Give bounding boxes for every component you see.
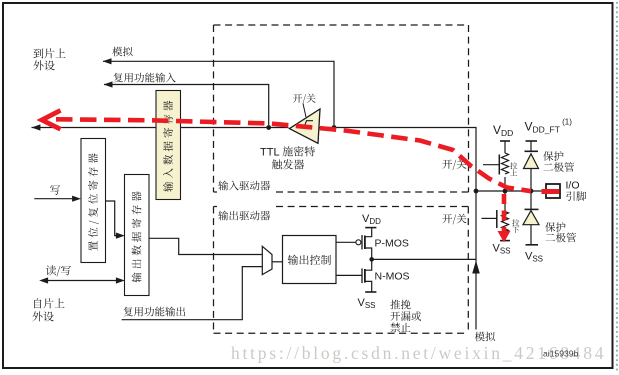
- resistor R2 pull-down with switch: [482, 191, 509, 240]
- svg-text:引脚: 引脚: [566, 189, 587, 204]
- power VDD (pmos source): [365, 227, 376, 229]
- wire: mos output to pin column: [372, 258, 476, 260]
- resistor R1 pull-up with switch: [483, 141, 509, 191]
- svg-text:VSS: VSS: [525, 251, 543, 264]
- wire: schmitt input to pin column: [319, 128, 476, 192]
- svg-text:VDD: VDD: [493, 123, 513, 138]
- node junction: protection diode column: [529, 189, 534, 194]
- svg-text:ai15939b: ai15939b: [543, 349, 579, 359]
- transistor Q2 N-MOS: [336, 259, 372, 291]
- svg-text:开/关: 开/关: [293, 90, 317, 105]
- schmitt trigger U1: [289, 109, 320, 143]
- ground VSS (diode): [526, 244, 539, 246]
- ground VSS (nmos source): [365, 291, 376, 293]
- register: input data register: [156, 91, 181, 200]
- wire: set/reset register to output data register: [106, 201, 118, 236]
- svg-text:触发器: 触发器: [272, 157, 305, 173]
- diode D1 protection (to VDD_FT): [530, 141, 532, 151]
- svg-text:写: 写: [50, 182, 61, 198]
- svg-text:模拟: 模拟: [475, 330, 496, 345]
- svg-text:输出驱动器: 输出驱动器: [218, 209, 271, 224]
- svg-text:外设: 外设: [32, 309, 54, 325]
- wire: schmitt output to input data register: [181, 127, 289, 129]
- svg-text:模拟: 模拟: [112, 45, 133, 60]
- svg-text:下: 下: [512, 224, 520, 235]
- svg-text:禁止: 禁止: [390, 321, 411, 336]
- svg-text:复用功能输出: 复用功能输出: [123, 305, 186, 320]
- ground VSS (pull-down): [500, 240, 510, 242]
- wire: main input line to peripherals: [32, 127, 157, 129]
- svg-text:置位/复位寄存器: 置位/复位寄存器: [86, 150, 101, 251]
- block: output control U2: [283, 236, 337, 284]
- red signal path (input with pull-down): [42, 110, 559, 231]
- node junction: alternate input taps main line: [266, 125, 271, 130]
- svg-text:输入驱动器: 输入驱动器: [218, 179, 271, 194]
- register: output data register: [125, 175, 150, 296]
- svg-text:二极管: 二极管: [543, 160, 575, 175]
- wire: main io line: [476, 190, 546, 192]
- svg-text:读/写: 读/写: [46, 263, 72, 279]
- mux: output selector: [262, 246, 272, 274]
- svg-text:VDD: VDD: [362, 213, 381, 226]
- node junction: analog taps main line: [332, 125, 337, 130]
- svg-text:P-MOS: P-MOS: [375, 238, 409, 250]
- node junction: analog column: [474, 189, 479, 194]
- transistor Q1 P-MOS: [336, 228, 372, 259]
- dashed box: input driver: [214, 25, 469, 192]
- svg-text:VSS: VSS: [493, 243, 511, 256]
- svg-text:输出数据寄存器: 输出数据寄存器: [130, 188, 145, 283]
- svg-text:二极管: 二极管: [545, 230, 577, 245]
- svg-text:输出控制: 输出控制: [288, 252, 332, 268]
- wire: output data register to mux: [149, 238, 262, 254]
- node junction: pull resistors column: [503, 189, 508, 194]
- diode D2 protection (to VSS): [530, 191, 532, 209]
- wire: mux to output control: [272, 261, 283, 263]
- I/O pin pad: [546, 184, 560, 198]
- svg-text:上: 上: [510, 168, 518, 179]
- dashed box: output driver: [214, 207, 469, 334]
- svg-text:VSS: VSS: [358, 297, 376, 310]
- svg-text:N-MOS: N-MOS: [375, 271, 410, 283]
- svg-text:输入数据寄存器: 输入数据寄存器: [161, 98, 176, 193]
- node junction: mos drain node: [369, 257, 374, 262]
- wire: enable stub to schmitt: [303, 104, 306, 118]
- wire: analog branch down with up arrow: [475, 191, 477, 330]
- svg-text:VDD_FT (1): VDD_FT (1): [525, 118, 573, 135]
- register: bit set/reset register: [81, 139, 106, 263]
- svg-text:复用功能输入: 复用功能输入: [113, 71, 176, 86]
- svg-text:开/关: 开/关: [442, 212, 467, 227]
- svg-text:外设: 外设: [33, 58, 55, 74]
- selection dotted edge: [616, 2, 618, 373]
- red arrowhead at VSS: [498, 231, 511, 243]
